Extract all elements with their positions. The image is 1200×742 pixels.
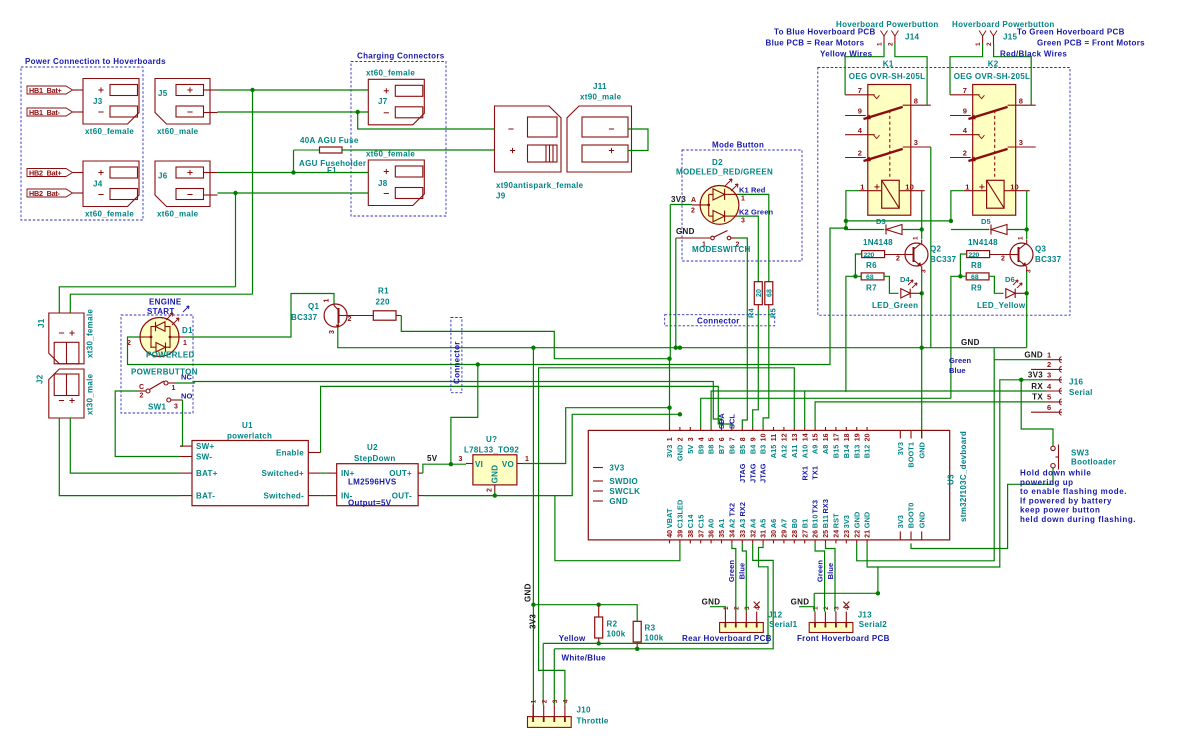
- svg-text:B5: B5: [738, 445, 747, 455]
- resistor R6 220: [862, 251, 885, 270]
- svg-text:U?: U?: [486, 435, 497, 444]
- svg-text:A10: A10: [800, 445, 809, 459]
- svg-text:Throttle: Throttle: [577, 717, 609, 726]
- svg-text:8: 8: [914, 96, 918, 105]
- wire R9 right to LED: [989, 276, 1004, 293]
- sheet box Connector left: [451, 318, 462, 393]
- svg-text:26: 26: [813, 530, 820, 538]
- connector J6 xt60_male: [155, 161, 218, 219]
- wire R4 to MCU pin9: [753, 310, 759, 428]
- svg-text:Connector: Connector: [453, 341, 462, 384]
- svg-text:2: 2: [140, 393, 144, 400]
- svg-text:MODELED_RED/GREEN: MODELED_RED/GREEN: [676, 168, 773, 177]
- svg-text:2: 2: [986, 42, 993, 46]
- svg-text:32: 32: [750, 530, 757, 538]
- wire MCU pin15 TX line to J16 TX: [815, 402, 1045, 427]
- svg-text:35: 35: [719, 530, 726, 538]
- svg-text:SWDIO: SWDIO: [609, 477, 638, 486]
- wire MCU pin4 to K2 base feed: [701, 398, 951, 427]
- wire Yellow line: [543, 543, 768, 643]
- svg-text:4: 4: [963, 126, 968, 135]
- svg-text:OEG OVR-SH-205L: OEG OVR-SH-205L: [849, 72, 926, 81]
- svg-text:MODESWITCH: MODESWITCH: [692, 245, 751, 254]
- wire R1 to 3V3 rail and MCU pin1 column: [401, 316, 669, 359]
- wire SW1 NO to U1 SW+: [180, 400, 183, 446]
- wire U1 Enable to MCU pin7: [321, 386, 732, 452]
- svg-text:B0: B0: [790, 519, 799, 529]
- note bootloader instructions: [1020, 469, 1136, 525]
- svg-text:D6: D6: [1005, 275, 1015, 284]
- svg-text:68: 68: [866, 274, 874, 281]
- svg-text:1: 1: [183, 340, 187, 347]
- svg-text:BAT-: BAT-: [196, 492, 215, 501]
- svg-text:BOOT0: BOOT0: [907, 503, 916, 529]
- svg-text:3V3: 3V3: [529, 614, 538, 629]
- svg-text:Blue: Blue: [826, 563, 835, 580]
- wire fuse left lead down: [293, 150, 295, 173]
- wire D1 pin1 to Q1 collector: [186, 294, 334, 338]
- svg-text:SW3: SW3: [1071, 449, 1089, 458]
- sheet box Charging Connectors: [351, 52, 446, 217]
- svg-text:J4: J4: [93, 180, 103, 189]
- svg-text:1N4148: 1N4148: [968, 238, 998, 247]
- wire J13 GND drop: [813, 593, 815, 611]
- svg-text:GND: GND: [1024, 351, 1043, 360]
- wire J5+ to J7+: [218, 89, 369, 91]
- svg-text:Green PCB = Front Motors: Green PCB = Front Motors: [1037, 39, 1145, 48]
- junction bottom GND chain: [876, 591, 880, 595]
- svg-text:Mode Button: Mode Button: [712, 141, 764, 150]
- svg-text:38: 38: [688, 530, 695, 538]
- junction GND rail mode switch: [674, 346, 678, 350]
- svg-text:A8: A8: [821, 445, 830, 455]
- svg-text:HB2_Bat-: HB2_Bat-: [29, 189, 61, 198]
- svg-text:TX: TX: [1032, 393, 1043, 402]
- svg-text:B9: B9: [696, 445, 705, 455]
- svg-text:U3: U3: [947, 474, 956, 485]
- junction on J5+ wire: [250, 88, 254, 92]
- svg-text:Q3: Q3: [1035, 245, 1047, 254]
- svg-text:R2: R2: [607, 620, 618, 629]
- junction U7 GND line at pin2 column: [678, 412, 682, 416]
- svg-text:1: 1: [860, 182, 864, 191]
- svg-text:C14: C14: [686, 514, 695, 529]
- svg-text:Red/Black Wires: Red/Black Wires: [1000, 50, 1067, 59]
- svg-text:19: 19: [854, 433, 861, 441]
- svg-text:BC337: BC337: [930, 255, 957, 264]
- svg-text:A5: A5: [759, 519, 768, 529]
- svg-text:6: 6: [1047, 403, 1051, 412]
- wire J1- up and right: [59, 287, 235, 313]
- wire base feed: [846, 276, 861, 391]
- svg-text:2: 2: [896, 256, 900, 263]
- sheet box Mode Button: [682, 141, 802, 262]
- connector J14 powerbutton: [877, 31, 920, 47]
- connector J7 xt60_female: [366, 69, 424, 125]
- svg-text:2: 2: [541, 699, 548, 703]
- svg-text:4: 4: [563, 699, 570, 703]
- svg-text:2: 2: [1047, 360, 1051, 369]
- svg-text:8: 8: [1019, 96, 1023, 105]
- wire Q2 emitter to GND rail and MCU: [921, 293, 923, 438]
- svg-text:21: 21: [865, 530, 872, 538]
- resistor R4: [747, 282, 763, 318]
- svg-text:GND: GND: [961, 338, 980, 347]
- junction U7 GND tap: [493, 493, 497, 497]
- svg-text:SW1: SW1: [148, 403, 166, 412]
- svg-text:10: 10: [761, 433, 768, 441]
- svg-text:Blue: Blue: [737, 563, 746, 580]
- wire J6- down to J1- net: [235, 193, 237, 287]
- svg-text:3V3: 3V3: [896, 442, 905, 455]
- wire GND vertical to J10 pin1: [532, 348, 534, 717]
- svg-text:220: 220: [969, 252, 980, 259]
- svg-text:D1: D1: [182, 326, 193, 335]
- svg-text:Connector: Connector: [697, 317, 740, 326]
- svg-text:Front Hoverboard PCB: Front Hoverboard PCB: [797, 634, 890, 643]
- wire J6- to J8-: [218, 192, 369, 194]
- wire J2+ down to BAT+: [70, 418, 180, 473]
- wire SW1 common to U1 SW-: [115, 391, 180, 457]
- svg-text:JTAG: JTAG: [748, 463, 757, 483]
- wire Switched+ to U2 IN+: [321, 472, 327, 474]
- resistor R2 100k: [595, 605, 626, 644]
- relay K2 OEG OVR-SH-205L: [950, 60, 1036, 216]
- junction 5V node: [449, 462, 453, 466]
- svg-text:LM2596HVS: LM2596HVS: [348, 478, 397, 487]
- svg-text:1N4148: 1N4148: [863, 238, 893, 247]
- wire J12 GND: [710, 607, 725, 612]
- svg-text:VO: VO: [502, 460, 514, 469]
- switch SW3 Bootloader: [1051, 445, 1116, 470]
- wire J13 GND: [799, 607, 814, 612]
- svg-text:Serial2: Serial2: [859, 620, 888, 629]
- svg-text:3V3: 3V3: [609, 463, 624, 472]
- svg-text:R4: R4: [747, 307, 756, 318]
- wire J16 GND feed down to MCU pin22: [857, 348, 995, 561]
- svg-text:14: 14: [802, 433, 809, 441]
- svg-text:10: 10: [1010, 182, 1019, 191]
- svg-text:R1: R1: [378, 287, 389, 296]
- svg-text:29: 29: [782, 530, 789, 538]
- svg-text:BOOT1: BOOT1: [907, 442, 916, 468]
- wire bottom GND chain riser: [877, 567, 879, 593]
- svg-text:34: 34: [730, 530, 737, 538]
- wire 3V3 vertical through MCU pin1: [670, 204, 692, 206]
- svg-text:powerlatch: powerlatch: [227, 432, 272, 441]
- wire J13 pin2 to MCU: [815, 543, 825, 611]
- svg-text:1: 1: [525, 456, 529, 463]
- junction GND R2 top: [531, 603, 535, 607]
- wire J2- down to BAT-: [59, 418, 180, 496]
- connector J5 xt60_male: [155, 79, 218, 137]
- svg-text:Green: Green: [816, 560, 825, 582]
- svg-text:1: 1: [531, 699, 538, 703]
- svg-text:NO: NO: [181, 392, 193, 401]
- svg-text:held down during flashing.: held down during flashing.: [1020, 515, 1136, 524]
- diode D5 1N4148: [951, 217, 1027, 247]
- connector J10 Throttle: [528, 699, 609, 727]
- svg-text:HB1_Bat-: HB1_Bat-: [29, 108, 61, 117]
- svg-text:J1: J1: [37, 318, 46, 328]
- wire coil supply bus: [846, 220, 951, 222]
- relay K1 OEG OVR-SH-205L: [845, 60, 931, 216]
- svg-text:B3: B3: [759, 445, 768, 455]
- svg-text:B15: B15: [832, 445, 841, 459]
- svg-text:K1 Red: K1 Red: [739, 186, 766, 195]
- wire D1 pin2 to 5V line and relay coils: [128, 228, 846, 364]
- svg-text:B8: B8: [707, 445, 716, 455]
- svg-text:R7: R7: [866, 284, 877, 293]
- wire J16 GND to vertical: [994, 359, 1045, 361]
- svg-text:3V3: 3V3: [665, 445, 674, 458]
- svg-text:GND: GND: [917, 442, 926, 459]
- svg-text:2: 2: [1001, 256, 1005, 263]
- svg-text:R3: R3: [645, 624, 656, 633]
- wire SW1 NC to MCU pin6: [176, 382, 722, 428]
- wire fuse right to J9+: [342, 149, 495, 151]
- svg-text:A0: A0: [707, 519, 716, 529]
- svg-text:B12: B12: [863, 445, 872, 459]
- svg-text:5V: 5V: [686, 445, 695, 454]
- svg-text:Q2: Q2: [930, 245, 942, 254]
- svg-text:100k: 100k: [645, 634, 664, 643]
- svg-text:B14: B14: [842, 444, 851, 459]
- svg-text:33: 33: [740, 530, 747, 538]
- svg-text:RX: RX: [1031, 382, 1043, 391]
- transistor Q2 BC337: [885, 236, 957, 273]
- wire MCU pin14 down from RX line: [804, 391, 806, 427]
- svg-text:11: 11: [771, 434, 778, 442]
- resistor R3 100k: [633, 621, 664, 649]
- wire D2 pin1 to R5: [737, 194, 769, 281]
- svg-text:A7: A7: [780, 519, 789, 529]
- svg-text:to enable flashing mode.: to enable flashing mode.: [1020, 487, 1127, 496]
- sheet box ENGINE START: [121, 298, 193, 414]
- svg-text:F1: F1: [327, 166, 337, 175]
- svg-text:2: 2: [678, 437, 685, 441]
- svg-text:Blue PCB = Rear Motors: Blue PCB = Rear Motors: [766, 39, 865, 48]
- svg-text:24: 24: [834, 530, 841, 538]
- svg-text:Serial1: Serial1: [769, 620, 798, 629]
- svg-text:Green: Green: [949, 356, 971, 365]
- svg-text:U2: U2: [367, 443, 378, 452]
- svg-text:B1: B1: [800, 519, 809, 529]
- svg-text:keep power button: keep power button: [1020, 506, 1100, 515]
- svg-text:xt60_female: xt60_female: [366, 150, 415, 159]
- svg-text:NC: NC: [181, 373, 193, 382]
- svg-text:VBAT: VBAT: [665, 508, 674, 528]
- junction LED cathode: [1025, 291, 1029, 295]
- svg-text:4: 4: [858, 126, 863, 135]
- IC U3 stm32f103C devboard: [588, 413, 968, 544]
- wire J15 pin2 to K2 pin8: [994, 44, 1032, 105]
- svg-text:Yellow Wires: Yellow Wires: [820, 50, 873, 59]
- switch SW1 POWERBUTTON: [131, 368, 198, 412]
- svg-text:2: 2: [887, 42, 894, 46]
- svg-text:1: 1: [877, 42, 884, 46]
- wire R7 right to LED: [884, 276, 899, 293]
- junction U7 VO at pin1 column: [667, 406, 671, 410]
- svg-text:37: 37: [698, 530, 705, 538]
- svg-text:xt90_male: xt90_male: [580, 93, 622, 102]
- svg-text:5V: 5V: [427, 454, 438, 463]
- svg-text:3: 3: [914, 138, 918, 147]
- svg-text:A15: A15: [769, 445, 778, 459]
- wire R8 left lead: [960, 254, 966, 276]
- svg-text:J5: J5: [158, 89, 168, 98]
- svg-text:LED_Yellow: LED_Yellow: [977, 301, 1026, 310]
- LED D4 LED_Green: [872, 275, 922, 310]
- svg-text:xt60_female: xt60_female: [85, 210, 134, 219]
- wire MCU pin5 RX line to J16 RX: [711, 391, 1045, 427]
- wire K1 pin3 down to GND rail: [930, 147, 932, 348]
- svg-text:HB2_Bat+: HB2_Bat+: [29, 169, 62, 178]
- svg-text:30: 30: [771, 530, 778, 538]
- svg-text:GND: GND: [702, 598, 721, 607]
- svg-text:2: 2: [691, 208, 695, 215]
- wire 5V node up to 5V line: [451, 365, 478, 465]
- global label HB2_Bat-: [27, 189, 73, 198]
- fuse F1 40A AGU: [294, 136, 369, 175]
- junction D5 cathode: [1025, 227, 1029, 231]
- svg-text:3: 3: [459, 456, 463, 463]
- svg-text:B13: B13: [852, 445, 861, 459]
- svg-text:40: 40: [667, 530, 674, 538]
- svg-text:A4: A4: [748, 518, 757, 528]
- wire Q3 emitter down: [1026, 271, 1028, 293]
- wire J7- down to J9-: [358, 112, 495, 129]
- junction D3 cathode: [920, 227, 924, 231]
- svg-text:powering up: powering up: [1020, 478, 1074, 487]
- svg-text:3: 3: [329, 330, 336, 334]
- junction GND rail pin2 column: [678, 346, 682, 350]
- svg-text:R6: R6: [866, 261, 877, 270]
- svg-text:J6: J6: [158, 172, 168, 181]
- svg-text:22: 22: [854, 530, 861, 538]
- svg-text:GND: GND: [676, 445, 685, 462]
- svg-text:15: 15: [813, 433, 820, 441]
- svg-text:3V3: 3V3: [1028, 371, 1043, 380]
- svg-text:13: 13: [792, 433, 799, 441]
- svg-text:B11: B11: [821, 515, 830, 528]
- junction fuse tap: [291, 170, 295, 174]
- svg-text:A2: A2: [728, 519, 737, 529]
- svg-text:SW-: SW-: [196, 453, 212, 462]
- wire mode switch pin2 to MCU pin8: [737, 238, 748, 427]
- svg-text:RX2: RX2: [738, 502, 747, 517]
- svg-text:A: A: [691, 197, 696, 204]
- svg-text:xt60_female: xt60_female: [85, 127, 134, 136]
- svg-text:J12: J12: [768, 611, 782, 620]
- svg-text:17: 17: [834, 433, 841, 441]
- svg-text:J16: J16: [1069, 378, 1083, 387]
- svg-text:D4: D4: [900, 275, 911, 284]
- svg-text:POWERLED: POWERLED: [146, 351, 195, 360]
- connector J8 xt60_female: [366, 150, 424, 206]
- svg-text:START: START: [147, 307, 175, 316]
- wire base feed: [951, 276, 966, 398]
- wire U7 GND pin down: [494, 491, 496, 496]
- svg-text:Serial: Serial: [1069, 388, 1093, 397]
- connector J11 xt90_male: [567, 82, 632, 172]
- svg-text:20: 20: [756, 289, 763, 297]
- svg-text:J10: J10: [577, 706, 591, 715]
- wire J16 3V3 feed down to MCU pin21: [867, 380, 1045, 567]
- wire mode switch GND down to rail: [675, 238, 677, 348]
- svg-text:3V3: 3V3: [896, 515, 905, 528]
- svg-text:3V3: 3V3: [842, 515, 851, 528]
- wire J11 bracket: [628, 129, 648, 151]
- svg-text:B6: B6: [728, 445, 737, 455]
- svg-text:Q1: Q1: [308, 302, 320, 311]
- wire J12 pin3 to MCU: [742, 543, 746, 611]
- svg-text:xt60_male: xt60_male: [157, 210, 199, 219]
- svg-text:25: 25: [823, 530, 830, 538]
- svg-text:20: 20: [865, 433, 872, 441]
- svg-text:xt60_female: xt60_female: [366, 69, 415, 78]
- svg-text:16: 16: [823, 433, 830, 441]
- sheet box Connector mode: [665, 315, 775, 326]
- svg-text:J9: J9: [496, 192, 506, 201]
- svg-text:D3: D3: [876, 217, 886, 226]
- svg-text:B4: B4: [748, 444, 757, 454]
- svg-text:Blue: Blue: [949, 366, 966, 375]
- svg-text:Yellow: Yellow: [559, 634, 586, 643]
- svg-text:D5: D5: [981, 217, 991, 226]
- svg-text:SWCLK: SWCLK: [609, 487, 640, 496]
- svg-text:1: 1: [913, 236, 920, 240]
- wire Q2 emitter down: [921, 271, 923, 293]
- svg-text:J7: J7: [378, 97, 388, 106]
- svg-text:xt90antispark_female: xt90antispark_female: [496, 181, 584, 190]
- svg-text:Rear Hoverboard PCB: Rear Hoverboard PCB: [682, 634, 772, 643]
- svg-text:40A AGU Fuse: 40A AGU Fuse: [300, 136, 359, 145]
- wire J12 pin2 to MCU: [732, 543, 736, 611]
- junction 5V tap: [476, 362, 480, 366]
- svg-text:GND: GND: [863, 512, 872, 529]
- svg-text:5: 5: [709, 437, 716, 441]
- wire U2 OUT- to GND net: [424, 414, 680, 495]
- global label HB1_Bat-: [27, 108, 73, 117]
- connector J13 Serial2: [797, 602, 890, 643]
- svg-text:J2: J2: [36, 374, 45, 384]
- svg-text:R8: R8: [971, 261, 982, 270]
- svg-text:K2: K2: [988, 60, 999, 69]
- wire MCU pin13 to 3V3 vertical to J10: [539, 368, 795, 705]
- connector J16 Serial: [1024, 351, 1092, 416]
- svg-text:C15: C15: [696, 515, 705, 529]
- svg-text:7: 7: [730, 437, 737, 441]
- svg-text:1: 1: [667, 437, 674, 441]
- svg-text:J11: J11: [593, 82, 607, 91]
- junction resistor tie: [853, 274, 857, 278]
- wire R5 to MCU pin10: [763, 310, 769, 428]
- svg-text:RST: RST: [832, 513, 841, 528]
- svg-text:2: 2: [348, 316, 352, 323]
- svg-text:3: 3: [744, 606, 751, 610]
- svg-text:J8: J8: [378, 179, 388, 188]
- resistor R7 68: [861, 273, 884, 293]
- IC U2 LM2596HVS StepDown: [327, 443, 424, 508]
- svg-text:9: 9: [750, 437, 757, 441]
- svg-text:2: 2: [487, 488, 494, 492]
- svg-text:TX1: TX1: [811, 466, 820, 480]
- svg-text:L78L33_TO92: L78L33_TO92: [464, 446, 519, 455]
- svg-text:BC337: BC337: [291, 313, 318, 322]
- svg-text:12: 12: [782, 433, 789, 441]
- wire U2 OUT+ to 5V node: [423, 464, 466, 473]
